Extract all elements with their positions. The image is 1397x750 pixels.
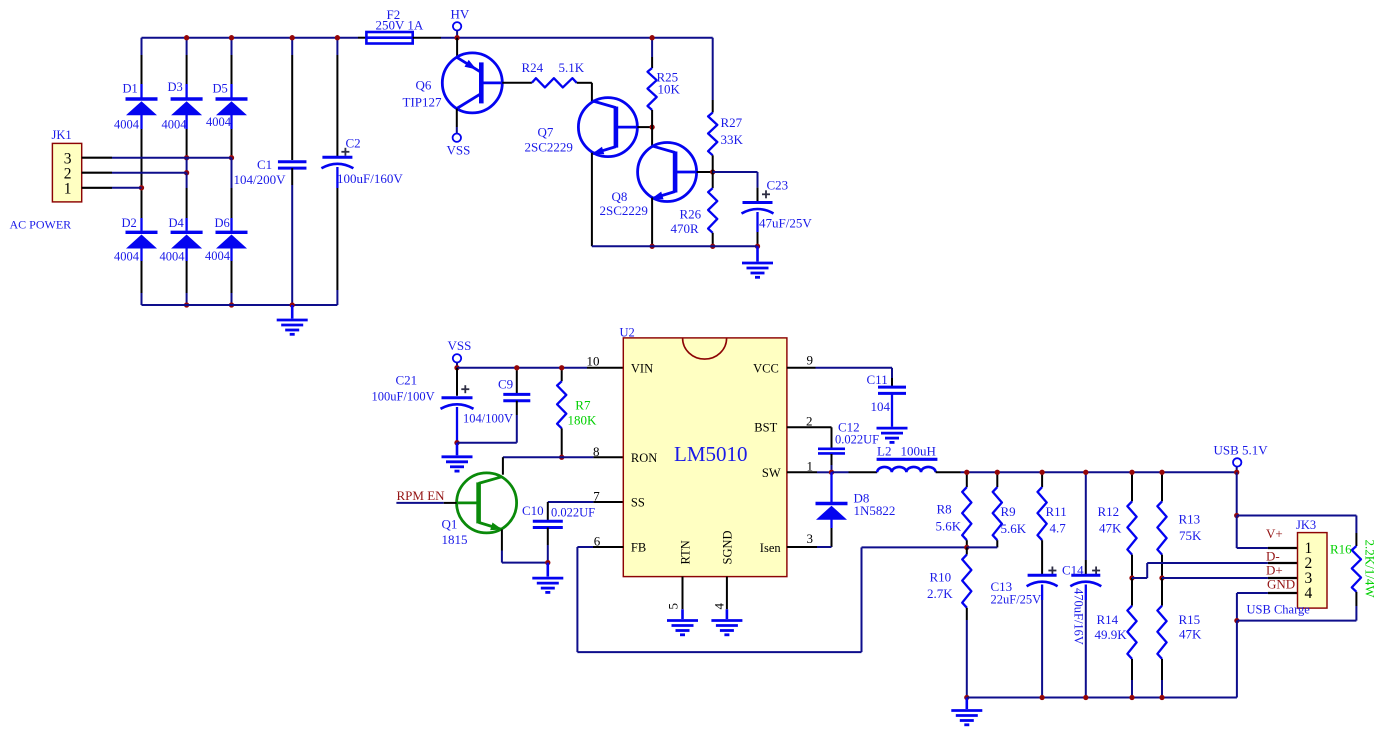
capacitor C1 [234,35,307,308]
svg-text:FB: FB [631,541,646,555]
wire JK1 pin2 [82,172,187,174]
svg-text:5.1K: 5.1K [559,60,585,75]
ground at C1 [277,305,308,334]
svg-text:RPM EN: RPM EN [397,488,446,503]
svg-text:L2: L2 [877,444,891,459]
svg-text:R13: R13 [1179,512,1201,527]
svg-text:R10: R10 [930,570,952,585]
svg-text:100uH: 100uH [901,444,936,459]
svg-text:R24: R24 [522,60,544,75]
IC U2 pin names [631,362,781,565]
svg-text:VSS: VSS [447,143,471,158]
svg-text:100uF/100V: 100uF/100V [372,390,435,404]
resistor R27 [708,38,743,172]
ground at bottom rail [951,698,982,725]
svg-text:10K: 10K [658,82,681,97]
svg-text:C21: C21 [396,373,418,388]
wire VIN rail [457,367,623,369]
wire SGND pin and ground [711,577,742,635]
wire D- route [1132,563,1298,578]
svg-text:9: 9 [807,353,814,368]
wire FB loop [577,547,966,652]
wire SW rail to USB node [936,471,1237,473]
svg-text:V+: V+ [1266,526,1283,541]
svg-text:104: 104 [871,399,891,414]
svg-text:C1: C1 [257,157,272,172]
svg-text:100uF/160V: 100uF/160V [337,171,403,186]
resistor R26 [671,172,718,249]
svg-text:R9: R9 [1001,504,1016,519]
svg-text:R15: R15 [1179,612,1201,627]
wire D3 column top [184,35,189,84]
resistor R11 [1038,470,1067,575]
diode D2 [114,216,158,264]
IC U2 pin numbers [587,353,814,610]
diode D6 [205,216,248,263]
ground at C23 [742,246,773,277]
fuse F2 [358,7,441,44]
svg-text:RON: RON [631,451,657,465]
wire VCC row [787,368,892,387]
resistor R13 [1157,470,1202,581]
capacitor C2 [321,35,403,305]
svg-text:2SC2229: 2SC2229 [525,139,573,154]
wire Q8 base row [697,169,716,174]
wire D4 column bottom [184,261,189,308]
svg-text:C2: C2 [346,136,361,151]
svg-text:49.9K: 49.9K [1095,627,1128,642]
connector JK1 [52,128,82,202]
svg-text:5.6K: 5.6K [1001,521,1027,536]
svg-text:4004: 4004 [114,250,140,264]
svg-text:D3: D3 [168,80,183,94]
svg-text:1N5822: 1N5822 [854,503,896,518]
wire top HV rail [142,37,713,39]
IC U2 body [620,325,787,576]
wire bridge bottom rail [142,304,338,306]
resistor R10 [927,547,971,700]
svg-text:C14: C14 [1062,563,1084,578]
svg-text:R11: R11 [1046,504,1067,519]
resistor R12 [1098,470,1137,581]
svg-text:180K: 180K [568,413,598,428]
svg-text:3: 3 [807,531,814,546]
resistor R8 [936,470,972,550]
svg-text:Q1: Q1 [442,517,458,532]
svg-text:TIP127: TIP127 [403,95,443,110]
svg-text:USB 5.1V: USB 5.1V [1214,443,1269,458]
capacitor C9 [463,365,530,443]
label AC POWER [10,218,72,232]
capacitor C10 [522,503,595,565]
resistor R16 [1330,540,1378,621]
wire JK1 pin1 [82,187,142,189]
svg-text:D6: D6 [215,216,230,230]
ground at C10 [532,563,563,593]
svg-text:R14: R14 [1097,612,1119,627]
wire D6 column bottom [229,261,234,308]
node USB 5.1V [1214,443,1269,475]
svg-text:47K: 47K [1179,627,1202,642]
svg-text:GND: GND [1267,577,1295,592]
svg-text:LM5010: LM5010 [674,442,748,466]
wire to C23 [713,172,758,201]
svg-text:4: 4 [1305,585,1313,602]
svg-text:R7: R7 [575,398,591,413]
resistor R24 [502,60,592,87]
svg-text:2.7K: 2.7K [927,586,953,601]
svg-text:47uF/25V: 47uF/25V [759,216,812,231]
capacitor C23 [742,178,813,249]
ground at C11 [877,428,908,442]
svg-text:4004: 4004 [205,249,231,263]
IC U2 label LM5010 [674,442,748,466]
svg-text:470uF/16V: 470uF/16V [1072,588,1086,645]
svg-text:10: 10 [587,353,600,368]
wire RTN pin and ground [667,577,698,635]
svg-text:33K: 33K [721,132,744,147]
svg-text:RTN: RTN [679,540,693,564]
svg-text:R8: R8 [937,502,952,517]
svg-text:104/200V: 104/200V [234,172,287,187]
ground at C21 [442,443,473,471]
resistor R7 [557,365,597,460]
svg-text:R16: R16 [1330,542,1352,557]
svg-text:R27: R27 [721,115,743,130]
svg-text:Isen: Isen [760,541,782,555]
svg-text:470R: 470R [671,221,700,236]
svg-text:R26: R26 [680,207,702,222]
svg-text:SS: SS [631,496,645,510]
capacitor C12 [818,420,879,473]
svg-text:Q6: Q6 [416,78,432,93]
svg-text:1: 1 [807,459,814,474]
svg-text:D5: D5 [213,82,228,96]
svg-text:D-: D- [1266,549,1280,564]
svg-text:104/100V: 104/100V [463,412,513,426]
svg-text:C11: C11 [867,372,888,387]
diode D5 [206,82,248,130]
wire V+ column [1234,472,1297,548]
wire SW row [787,470,877,475]
inductor L2 [877,444,938,473]
svg-text:4004: 4004 [162,118,188,132]
wire RPM EN [396,488,456,503]
diode D3 [162,80,203,132]
svg-text:4.7: 4.7 [1050,521,1067,536]
svg-text:D+: D+ [1266,563,1283,578]
svg-text:R12: R12 [1098,504,1120,519]
svg-text:VCC: VCC [753,362,779,376]
svg-text:C10: C10 [522,503,544,518]
svg-text:2: 2 [806,414,813,429]
svg-text:47K: 47K [1099,521,1122,536]
wire RON row [503,456,623,458]
wire Q7 Q8 bottom rail [592,245,758,247]
svg-text:D4: D4 [169,216,185,230]
wire D+ route [1162,577,1298,579]
wire R16 top link [1237,516,1357,547]
capacitor C11 [867,372,907,427]
svg-text:1815: 1815 [442,532,468,547]
transistor Q6 [403,38,503,113]
capacitor C13 [991,567,1058,701]
transistor Q8 [600,143,697,219]
node VSS at Q6 [447,109,471,158]
svg-text:0.022UF: 0.022UF [835,433,879,447]
connector JK3 [1296,518,1327,608]
svg-text:250V 1A: 250V 1A [376,18,424,33]
svg-text:5.6K: 5.6K [936,519,962,534]
svg-text:8: 8 [593,444,600,459]
svg-text:JK3: JK3 [1296,518,1316,532]
labels JK3 pins [1266,526,1295,591]
wire RON to Q1 collector [502,457,504,475]
wire D2 column bottom [141,261,143,305]
svg-text:HV: HV [451,7,470,22]
svg-text:VIN: VIN [631,362,653,376]
wire Q1 emitter [502,530,548,563]
svg-text:2SC2229: 2SC2229 [600,203,648,218]
capacitor C14 [1062,470,1101,700]
svg-text:SGND: SGND [721,530,735,564]
svg-text:JK1: JK1 [52,128,72,142]
capacitor C21 [372,368,474,446]
svg-text:4004: 4004 [114,117,140,131]
wire D3-D4 column [184,129,189,218]
diode D8 [816,472,896,547]
resistor R14 [1095,578,1137,700]
wire bottom rail [967,697,1237,699]
svg-text:D1: D1 [123,82,138,96]
svg-text:Q8: Q8 [612,189,628,204]
svg-text:C23: C23 [767,178,789,193]
svg-text:D2: D2 [122,216,137,230]
node HV [451,7,470,41]
svg-text:C9: C9 [498,377,513,392]
svg-text:75K: 75K [1179,528,1202,543]
svg-text:22uF/25V: 22uF/25V [991,593,1042,607]
transistor Q7 [525,98,638,157]
svg-text:7: 7 [593,489,600,504]
wire R25 junction to Q8 [651,127,653,146]
wire GND route [1234,593,1356,698]
svg-text:AC POWER: AC POWER [10,218,72,232]
wire R24 to Q7 [591,83,593,103]
svg-text:4004: 4004 [160,250,186,264]
svg-text:SW: SW [762,466,781,480]
svg-text:VSS: VSS [448,338,472,353]
resistor R15 [1157,578,1202,700]
wire Q7 base to R25 [637,124,654,129]
svg-text:U2: U2 [620,325,635,339]
wire C21 C9 bottom link [457,442,517,444]
wire Isen row [787,546,832,548]
wire Q7 emitter column [591,153,593,247]
svg-text:BST: BST [754,421,777,435]
wire Q8 emitter column [649,198,654,249]
svg-text:Q7: Q7 [538,125,554,140]
wire D5 column top [229,35,234,84]
transistor Q1 [442,473,517,547]
diode D4 [160,216,203,264]
svg-text:4004: 4004 [206,115,232,129]
node VSS at C21 [448,338,472,370]
svg-text:1: 1 [64,180,72,197]
svg-text:0.022UF: 0.022UF [551,506,595,520]
wire D1-D2 column [139,129,144,218]
wire D5-D6 column [229,129,234,218]
wire D1 column top [141,38,143,84]
svg-text:USB Charge: USB Charge [1247,603,1311,617]
diode D1 [114,82,158,132]
svg-text:5: 5 [665,603,680,610]
resistor R25 [648,35,681,127]
wire SS row [548,502,624,521]
wire JK1 pin3 [82,157,232,159]
wire BST row [787,427,832,448]
svg-text:2.2K/1/4W: 2.2K/1/4W [1363,540,1378,599]
resistor R9 [967,470,1027,548]
svg-text:4: 4 [711,603,726,610]
label USB Charge [1247,603,1311,617]
